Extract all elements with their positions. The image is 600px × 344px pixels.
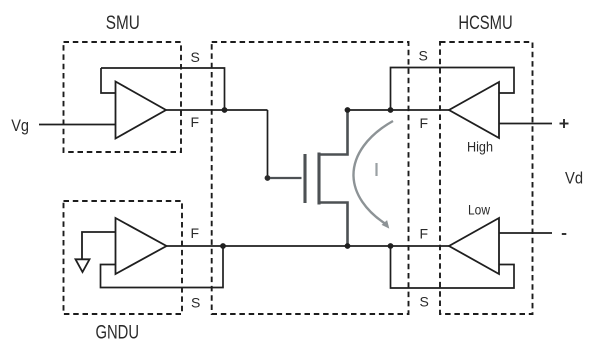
node gate junction [265,175,271,181]
wire top drain rail [348,109,450,111]
wire High force output [499,123,552,125]
op-amp HCSMU High buffer [449,82,499,138]
wire SMU F force output [166,109,268,111]
label I current [375,163,377,176]
svg-text:Vd: Vd [565,169,583,188]
wire Low force output [499,232,552,234]
wire gate drop [267,110,269,178]
op-amp SMU buffer [116,82,167,139]
current arrow I [353,121,393,229]
node drain sense junction [388,107,394,113]
svg-text:F: F [420,226,429,242]
svg-text:S: S [419,48,428,64]
op-amp GNDU buffer [116,218,167,274]
transistor Q1 gate lead [270,177,302,179]
svg-text:S: S [191,295,200,311]
svg-text:Low: Low [468,202,491,218]
wire SMU S sense line [101,68,225,110]
wire SMU sense feedback [101,68,116,93]
node source sense junction [388,243,394,249]
op-amp HCSMU Low buffer [449,218,499,274]
svg-text:S: S [191,49,200,65]
HCSMU enclosure box [440,42,533,314]
transistor Q1 drain lead [319,110,348,155]
wire High sense feedback [391,68,515,111]
transistor Q1 source lead [319,203,348,247]
GNDU enclosure box [64,201,183,314]
wire Low sense feedback [391,246,515,288]
wire Vg input [39,124,116,126]
wire GNDU sense feedback [101,246,224,288]
svg-text:HCSMU: HCSMU [458,12,512,34]
ground symbol [76,232,116,272]
svg-text:S: S [420,294,429,310]
transistor Q1 gate bar [303,154,306,203]
node source junction [345,243,351,249]
label plus terminal [560,119,569,128]
label minus terminal [562,233,567,235]
node SMU force-sense junction [222,107,228,113]
svg-text:GNDU: GNDU [96,322,140,344]
transistor Q1 channel bar [317,153,320,205]
node drain junction [345,107,351,113]
svg-text:Vg: Vg [11,116,29,135]
DUT fixture box [212,42,409,314]
svg-text:F: F [191,114,200,130]
wire bottom force rail [167,245,450,247]
svg-text:F: F [420,115,429,131]
svg-text:SMU: SMU [106,12,140,34]
svg-text:High: High [467,139,493,155]
svg-text:F: F [191,225,200,241]
SMU enclosure box [64,42,182,152]
node GNDU force-sense junction [220,243,226,249]
